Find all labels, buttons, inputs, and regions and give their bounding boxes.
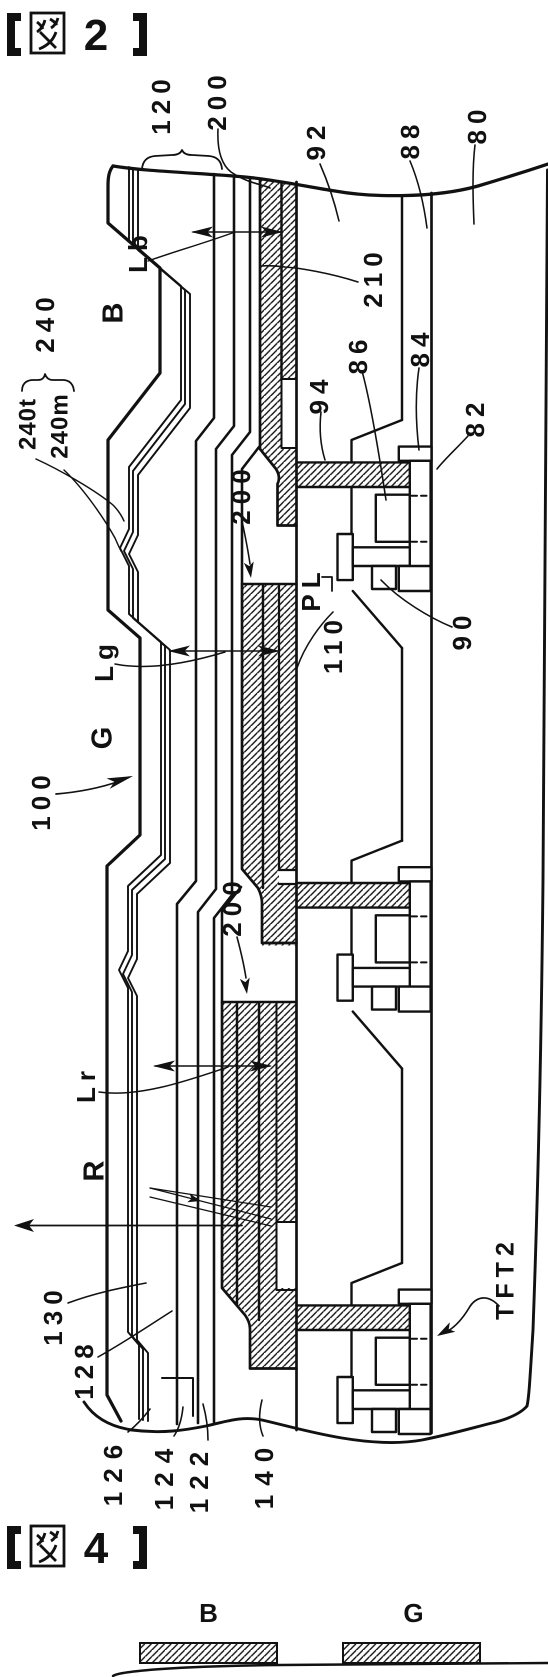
leader 84 <box>416 368 419 450</box>
svg-text:200: 200 <box>226 463 256 524</box>
figure 2 header bracket left <box>7 13 21 56</box>
brace for 120 <box>142 150 222 169</box>
pixel electrode 200 left edge (G) <box>242 584 297 943</box>
planarization 92 surface between TFTs (G-R) <box>401 1069 403 1263</box>
svg-text:240t: 240t <box>14 398 41 450</box>
top break line of panel 100 <box>113 164 548 196</box>
svg-text:PL: PL <box>296 566 326 611</box>
light ray 1 in R cavity <box>150 1188 271 1207</box>
leader 140 <box>260 1400 264 1436</box>
electrode 200+210 fill (B) <box>260 179 297 449</box>
gate insulator 88 top line <box>430 193 433 1433</box>
thin layer 240t line <box>119 167 181 1419</box>
leader 200 lower <box>237 937 246 978</box>
leader 130 <box>68 1283 146 1303</box>
electrode 200 top edge (G) <box>242 583 297 585</box>
planarization 92 surface between TFTs (top) <box>401 197 403 420</box>
thin layer 240 lower line <box>128 169 190 1421</box>
figure 2 header bracket right <box>133 13 147 56</box>
leader Lg <box>115 652 225 666</box>
leader Lr <box>99 1067 228 1093</box>
organic layer 126 line <box>198 176 234 1423</box>
leader 94 <box>320 412 325 460</box>
TFT structure under G pixel <box>297 841 432 1012</box>
electrode 200+210 fill (G) <box>242 584 297 870</box>
svg-text:94: 94 <box>304 374 334 415</box>
planarization slope below B TFT <box>353 591 402 648</box>
leader 240m <box>64 470 121 551</box>
svg-text:G: G <box>87 721 119 750</box>
svg-text:88: 88 <box>395 119 425 160</box>
optical length Lb arrow line <box>193 231 281 233</box>
leader TFT2 arrow <box>448 1298 499 1331</box>
optical length Lr arrow line <box>155 1065 270 1067</box>
svg-text:140: 140 <box>249 1439 279 1509</box>
svg-text:128: 128 <box>69 1338 99 1399</box>
Lg arrow left head <box>168 646 190 657</box>
leader 126 <box>128 1409 150 1432</box>
svg-text:120: 120 <box>146 73 176 134</box>
svg-text:240: 240 <box>30 291 60 352</box>
leader 122 <box>203 1404 208 1440</box>
leader 110 <box>297 612 333 668</box>
substrate 80 right break line <box>527 170 548 1406</box>
leader 80 <box>473 145 475 224</box>
svg-text:90: 90 <box>447 610 477 651</box>
substrate outer boundary (sealing layer 130 surface) <box>107 166 160 1421</box>
planarization 92 surface between TFTs (B-G) <box>401 648 403 841</box>
svg-text:4: 4 <box>84 1524 109 1573</box>
electrode 200/210 interface line (B) <box>280 182 282 379</box>
Lr arrow right head <box>250 1061 272 1072</box>
svg-text:84: 84 <box>405 327 435 368</box>
Lr arrow left head <box>153 1061 175 1072</box>
figure 2 header kanji ZU (figure) <box>31 13 64 53</box>
svg-text:200: 200 <box>217 875 247 936</box>
svg-text:B: B <box>98 297 130 324</box>
svg-text:B: B <box>199 1598 219 1628</box>
svg-text:126: 126 <box>98 1436 128 1506</box>
common layer 210 line (G) <box>279 585 297 884</box>
pixel electrode 200 left edge (B) <box>260 179 297 526</box>
leader 90 <box>381 580 452 627</box>
common layer 210 line (R) <box>277 1003 297 1290</box>
electrode 200 top edge (R) <box>222 1001 297 1003</box>
TFT structure under B pixel (drain contact, semiconductor 86, gate 90, power line PL) <box>297 420 432 591</box>
svg-text:TFT2: TFT2 <box>492 1236 520 1320</box>
figure 4 header bracket left <box>7 1526 21 1569</box>
svg-text:86: 86 <box>343 334 373 375</box>
electrode 200 via neck fill (R) <box>222 1288 297 1369</box>
fig4 electrode G (hatched) <box>343 1643 480 1663</box>
PL pointer bracket <box>322 577 332 591</box>
fig4 electrode B (hatched) <box>140 1643 277 1663</box>
thin layer 240m line <box>123 168 185 1420</box>
fig4 substrate line <box>113 1663 548 1676</box>
organic layer 124 line <box>214 178 250 1422</box>
red emission direction arrow <box>20 1225 242 1227</box>
emission arrow head <box>14 1219 34 1232</box>
common layer 210 window (B) <box>282 379 297 448</box>
bank 110 left boundary line <box>295 182 298 1430</box>
pixel electrode 200 left edge (R) <box>222 1002 297 1369</box>
svg-text:G: G <box>403 1598 424 1628</box>
figure 4 header kanji ZU <box>31 1526 64 1566</box>
electrode internal line 2 (R) <box>258 1003 260 1320</box>
Lb arrow left head <box>191 227 213 238</box>
svg-text:210: 210 <box>358 246 388 307</box>
svg-text:92: 92 <box>301 120 331 161</box>
leader 124 <box>174 1407 183 1436</box>
light ray 3 in R cavity <box>150 1188 271 1219</box>
leader 100 arrow <box>56 781 120 794</box>
leader 86 <box>362 371 386 500</box>
leader 240t <box>36 459 124 521</box>
organic layer 128 line <box>177 174 214 1424</box>
leader Lb <box>148 232 235 261</box>
svg-text:100: 100 <box>26 769 56 830</box>
svg-text:R: R <box>79 1155 111 1182</box>
ray arrow head <box>187 1193 202 1205</box>
svg-text:Lb: Lb <box>123 229 153 273</box>
layer step line above R electrode <box>222 887 241 1001</box>
200 middle arrow head <box>244 561 256 578</box>
optical length Lg arrow line <box>170 650 278 652</box>
leader 82 <box>437 436 468 469</box>
electrode 200 via neck fill (B) <box>260 449 297 526</box>
electrode internal line 1 (R) <box>236 1003 238 1304</box>
svg-text:124: 124 <box>149 1440 179 1510</box>
brace for 240 <box>22 374 74 391</box>
leader 128 <box>98 1311 172 1357</box>
svg-text:2: 2 <box>84 11 108 60</box>
svg-text:240m: 240m <box>46 393 73 458</box>
electrode 200+210 fill (R) <box>222 1002 297 1288</box>
light ray 2 in R cavity <box>150 1197 271 1226</box>
svg-text:Lg: Lg <box>89 638 119 682</box>
svg-text:130: 130 <box>38 1284 68 1345</box>
Lg arrow right head <box>258 646 280 657</box>
TFT2 arrow head <box>434 1322 455 1341</box>
svg-text:122: 122 <box>184 1443 214 1513</box>
layer step line above G electrode <box>242 447 259 583</box>
svg-text:80: 80 <box>462 104 492 145</box>
100 arrow head <box>107 771 135 789</box>
leader 92 <box>320 164 339 221</box>
svg-text:82: 82 <box>460 397 490 438</box>
figure 4 header bracket right <box>133 1526 147 1569</box>
electrode 200 via neck fill (G) <box>242 869 297 946</box>
svg-text:200: 200 <box>202 69 232 130</box>
bottom break line of panel <box>84 1402 527 1442</box>
Lb arrow right head <box>261 227 283 238</box>
leader 200 middle <box>242 521 250 564</box>
electrode internal line (G) <box>262 585 264 888</box>
leader 210 <box>262 266 358 282</box>
planarization slope below G TFT <box>353 1012 402 1069</box>
svg-text:Lr: Lr <box>71 1065 101 1103</box>
leader 88 <box>410 161 427 228</box>
TFT2 structure under R pixel <box>297 1263 432 1434</box>
leader 200 top <box>218 129 270 188</box>
200 lower arrow head <box>240 977 252 994</box>
layer 124 end step at bottom <box>162 1378 193 1416</box>
